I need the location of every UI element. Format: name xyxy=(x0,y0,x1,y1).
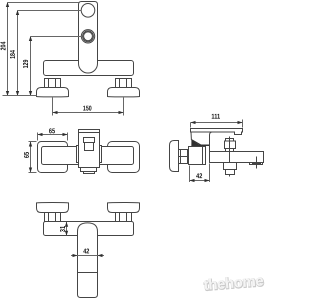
dim 42s right extension xyxy=(209,164,211,183)
lever neck right edge xyxy=(210,132,213,152)
dim 111 right extension xyxy=(242,120,244,128)
bottom view crossbar xyxy=(44,222,134,236)
lower knob middle circle xyxy=(83,31,94,42)
dim 184 bottom arrow xyxy=(16,91,19,96)
dim 204 bottom arrow xyxy=(6,91,9,96)
svg-text:184: 184 xyxy=(10,50,17,59)
connector bar (top view) xyxy=(42,147,134,165)
bottom view left nut xyxy=(45,213,61,222)
bottom view left flange xyxy=(37,203,69,213)
dim 31 bottom arrow xyxy=(65,231,68,236)
dim 150 line xyxy=(53,112,124,114)
dim 31 line xyxy=(66,222,68,236)
svg-text:204: 204 xyxy=(0,42,7,51)
dim 65h left arrow xyxy=(38,133,43,136)
dim 65h line xyxy=(38,134,68,136)
dim 65v top arrow xyxy=(29,142,32,147)
valve side tabs band xyxy=(77,146,102,163)
dim 150 right arrow xyxy=(119,111,124,114)
watermark thehome xyxy=(203,272,264,294)
lower outlet step E xyxy=(81,168,97,172)
dim 111 left arrow xyxy=(191,121,196,124)
lever neck left edge xyxy=(190,132,192,140)
valve housing cap line xyxy=(79,132,100,134)
top knob circle xyxy=(81,4,95,18)
wall flange (side) xyxy=(170,141,179,172)
spout outlet step xyxy=(250,163,263,165)
dim 42b label xyxy=(83,248,89,255)
dim 42b line xyxy=(71,255,104,257)
dim 65h right arrow xyxy=(63,133,68,136)
spout (bottom view) xyxy=(78,223,98,298)
valve housing (center) xyxy=(79,130,100,168)
dim 65h right extension xyxy=(67,133,69,141)
dim 42b right arrow xyxy=(98,254,103,257)
dim 42s left arrow xyxy=(190,179,195,182)
right leg hex nut xyxy=(116,79,132,88)
svg-text:150: 150 xyxy=(83,105,92,112)
dim 65v line xyxy=(30,142,32,173)
main horizontal body (side) xyxy=(210,152,264,163)
diverter axis line xyxy=(229,137,231,177)
dim 65v top extension xyxy=(29,141,37,143)
lever neck base line xyxy=(191,144,209,146)
svg-text:42: 42 xyxy=(196,173,202,180)
diverter knob body xyxy=(225,141,236,149)
dim 150 label xyxy=(83,105,92,112)
spout outlet cross vertical xyxy=(256,157,258,169)
dim 150 right extension xyxy=(123,98,125,116)
dim 129 extension line xyxy=(31,36,82,38)
svg-text:65: 65 xyxy=(49,128,55,135)
dim 65v label xyxy=(24,152,31,158)
svg-text:31: 31 xyxy=(60,226,67,232)
dim 129 bottom arrow xyxy=(29,91,32,96)
dim 129 top arrow xyxy=(29,36,32,41)
dim 42s right arrow xyxy=(205,179,210,182)
dim 65h left extension xyxy=(37,133,39,141)
dim 111 label xyxy=(211,114,220,121)
svg-text:65: 65 xyxy=(24,152,31,158)
svg-text:111: 111 xyxy=(211,114,220,121)
dim 129 label xyxy=(23,60,30,69)
right square escutcheon xyxy=(108,142,140,173)
dim 111 line xyxy=(191,122,243,124)
lower outlet step F xyxy=(84,172,95,174)
left foot flange xyxy=(37,88,69,97)
flange hex nut (side) xyxy=(179,150,188,164)
left leg hex nut xyxy=(45,79,61,88)
valve stem upper block xyxy=(84,138,95,143)
dim 184 top arrow xyxy=(16,10,19,15)
bottom hose outlet xyxy=(224,163,237,170)
dim 111 left extension xyxy=(190,123,192,128)
dim 204 line xyxy=(7,3,9,96)
body bottom U end xyxy=(79,64,98,74)
bottom view right flange xyxy=(108,203,140,213)
dim 204 label xyxy=(0,42,7,51)
dim 65h label xyxy=(49,128,55,135)
svg-text:thehome: thehome xyxy=(203,272,264,294)
lever neck dark wedge xyxy=(191,140,200,146)
dim 184 line xyxy=(17,11,19,96)
dim 42s line xyxy=(190,180,210,182)
left square escutcheon xyxy=(38,142,68,173)
dim 204 extension line (top) xyxy=(8,2,79,4)
handle lever bar xyxy=(191,129,243,135)
bottom view right nut xyxy=(116,213,132,222)
bottom hose outlet tip xyxy=(226,170,235,175)
diverter knob cap xyxy=(226,139,234,142)
svg-text:42: 42 xyxy=(83,248,89,255)
dim 204 top arrow xyxy=(6,2,9,7)
dim 42b left arrow xyxy=(73,254,78,257)
dim 184 label xyxy=(10,50,17,59)
spout outlet cross horizontal xyxy=(252,163,261,165)
dim 42s left extension xyxy=(189,166,191,183)
mixer body (vertical) xyxy=(79,2,98,64)
front view crossbar xyxy=(44,61,134,76)
spout seam line xyxy=(78,272,98,274)
svg-text:129: 129 xyxy=(23,60,30,69)
dim 129 line xyxy=(30,37,32,96)
diverter knob base xyxy=(226,149,234,152)
valve stem lower block xyxy=(85,143,94,151)
cartridge inner line xyxy=(202,147,204,165)
dim 150 left extension xyxy=(52,98,54,116)
dim 65v bottom arrow xyxy=(29,168,32,173)
bottom extension line for vertical dims xyxy=(3,95,37,97)
dim 150 left arrow xyxy=(53,111,58,114)
lower knob inner circle xyxy=(84,32,93,41)
dim 184 extension line xyxy=(18,10,82,12)
dim 65v bottom extension xyxy=(29,172,37,174)
dim 111 right arrow xyxy=(238,121,243,124)
lower knob outer circle xyxy=(81,30,94,43)
cartridge housing (side) xyxy=(189,147,206,165)
dim 42s label xyxy=(196,173,202,180)
dim 31 label xyxy=(60,226,67,232)
dim 31 top arrow xyxy=(65,222,68,227)
right foot flange xyxy=(108,88,140,97)
